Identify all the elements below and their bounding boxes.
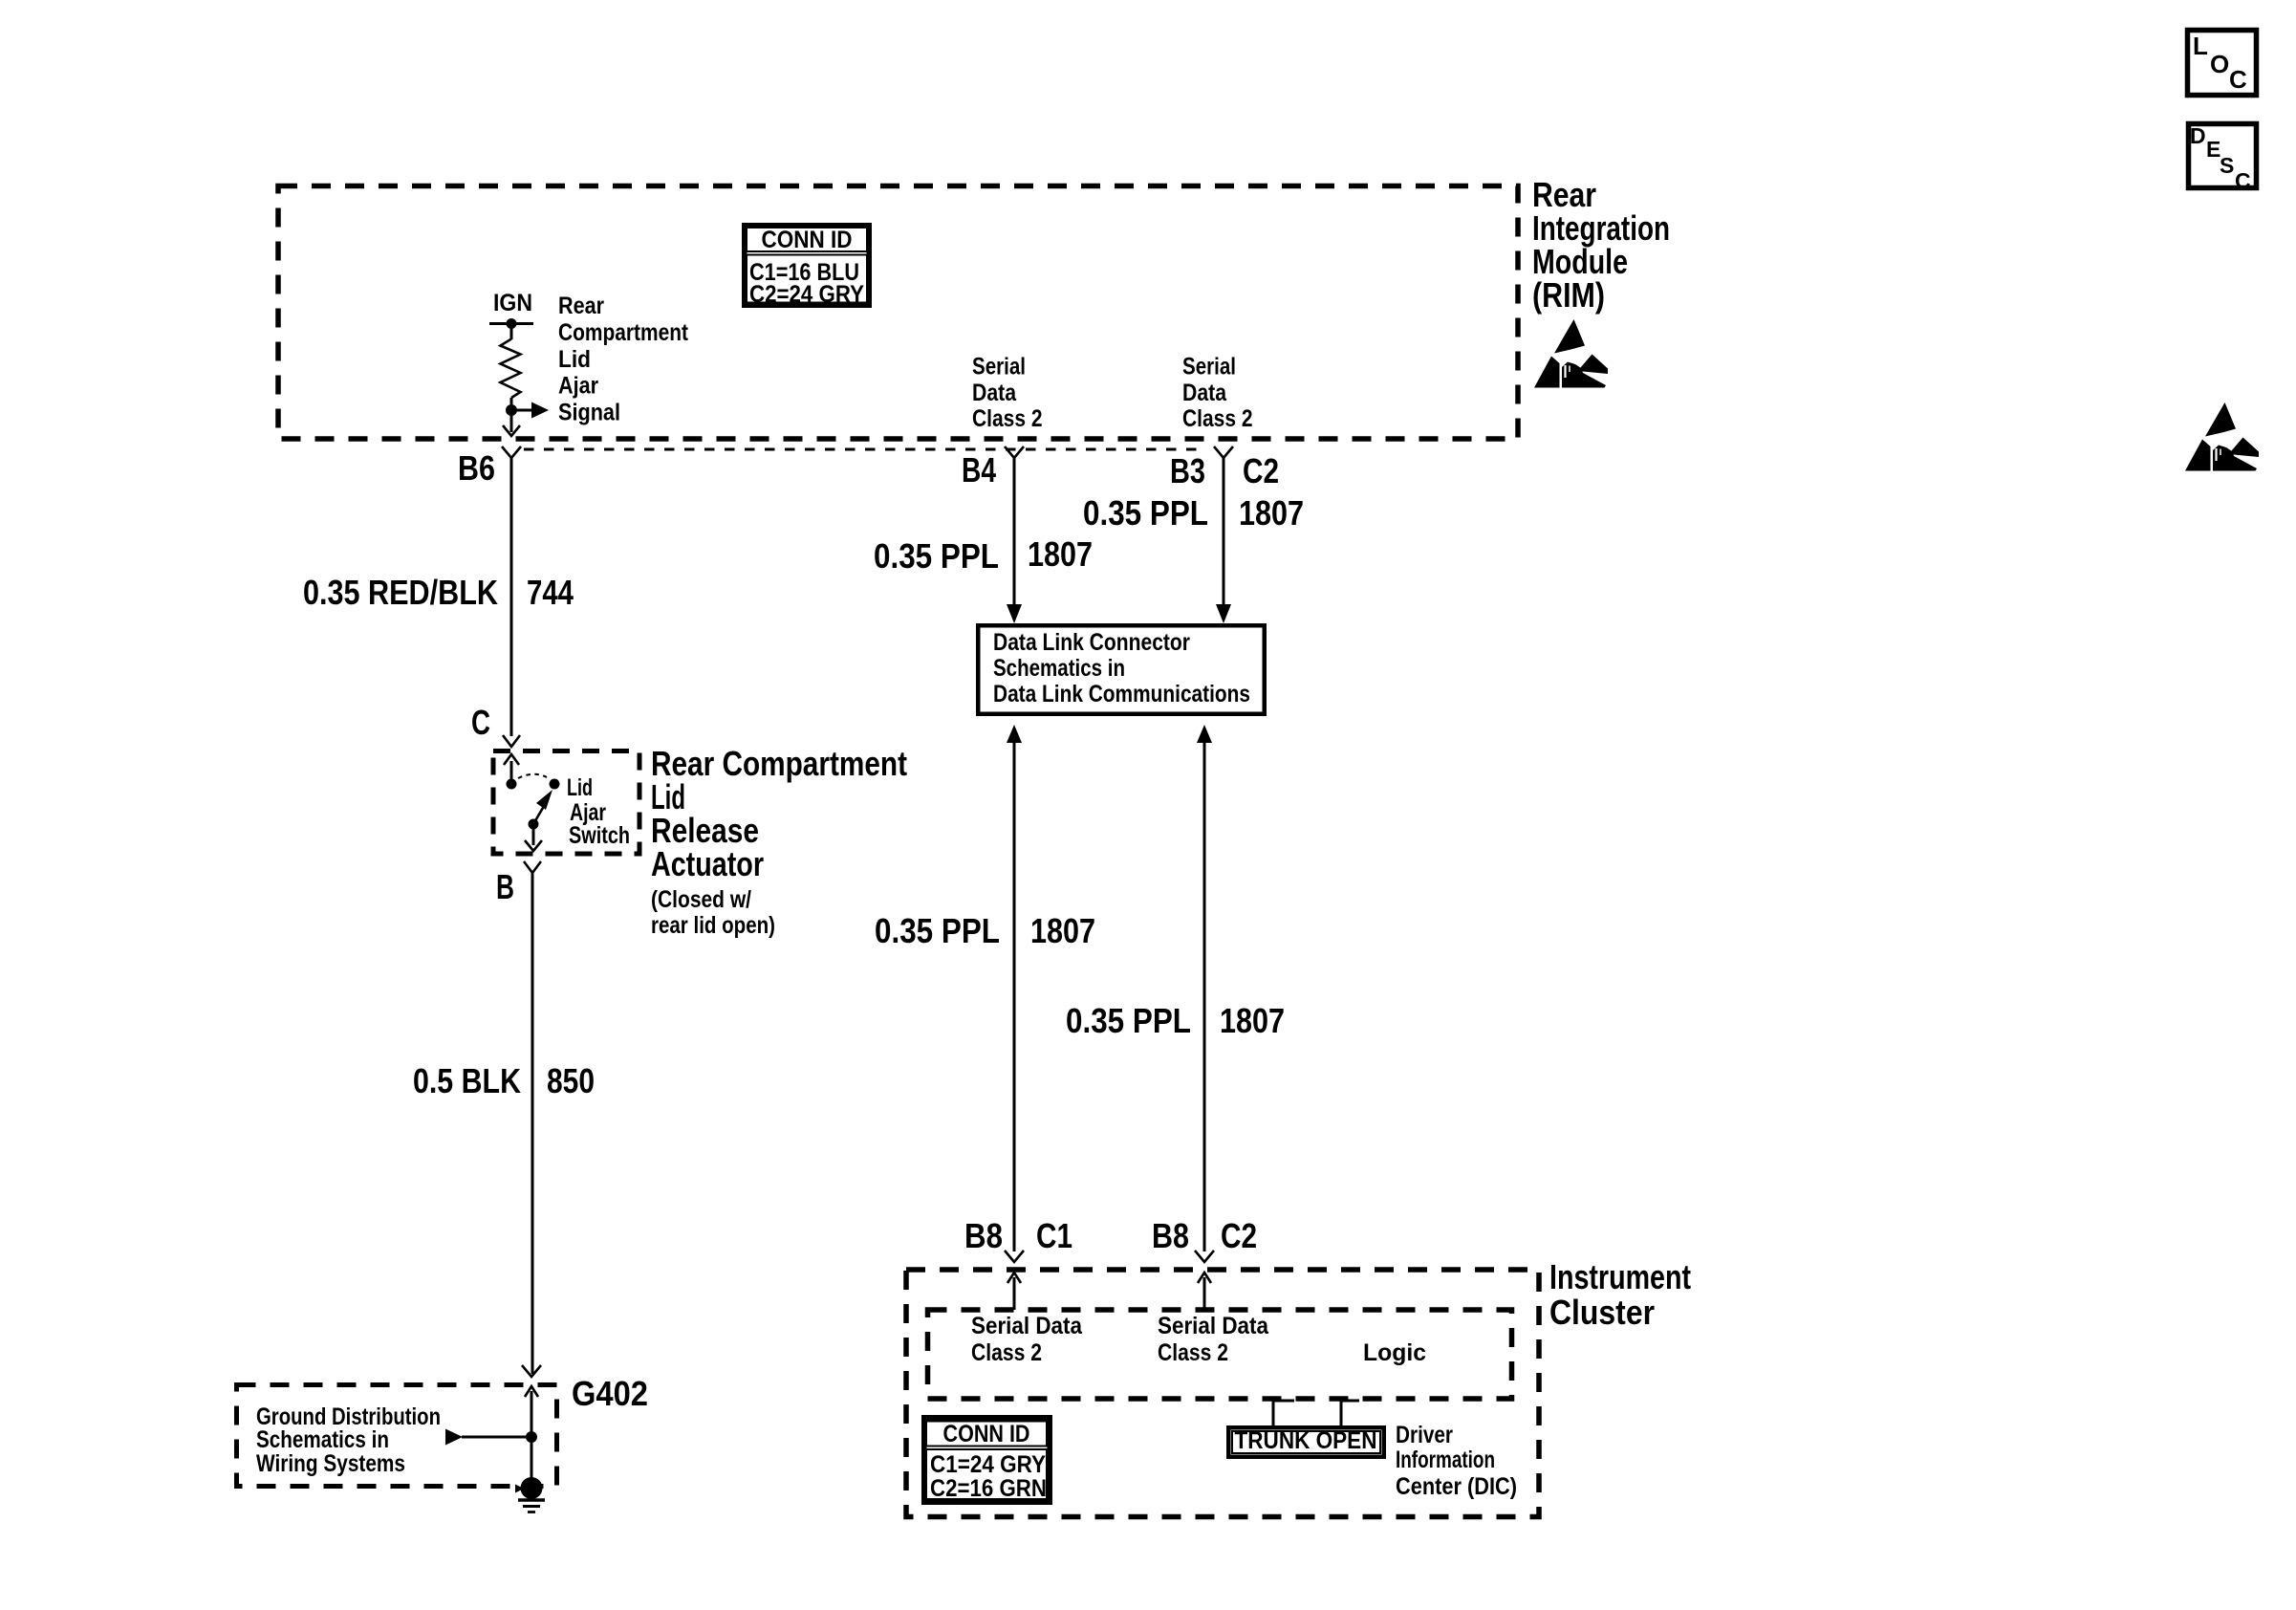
svg-text:0.35 PPL: 0.35 PPL: [1083, 493, 1208, 533]
wire B6 to C (0.35 RED/BLK 744): [510, 457, 513, 736]
svg-text:(RIM): (RIM): [1532, 275, 1605, 315]
svg-text:G402: G402: [572, 1374, 648, 1413]
svg-text:C: C: [471, 703, 490, 742]
resistor signal labels: [558, 293, 689, 426]
svg-text:C: C: [2235, 168, 2251, 193]
svg-text:Wiring Systems: Wiring Systems: [256, 1450, 405, 1477]
switch label: [567, 774, 630, 849]
svg-text:C2: C2: [1243, 451, 1279, 490]
svg-text:1807: 1807: [1028, 534, 1093, 574]
switch pivot dot: [529, 819, 539, 830]
svg-text:Information: Information: [1396, 1447, 1495, 1473]
connector fork B: [524, 861, 541, 873]
svg-text:Instrument: Instrument: [1549, 1257, 1691, 1296]
svg-text:Data: Data: [1182, 380, 1227, 406]
wire B to G402 (0.5 BLK 850): [531, 872, 534, 1374]
svg-text:Class 2: Class 2: [1182, 405, 1253, 432]
CONN ID table (IC): [924, 1418, 1051, 1503]
resistor (lid ajar pull-up): [501, 339, 521, 399]
svg-text:B4: B4: [962, 450, 996, 490]
wire (junction to ground): [531, 1437, 533, 1482]
junction dot (G402): [526, 1431, 537, 1443]
svg-text:C2=16 GRN: C2=16 GRN: [930, 1475, 1047, 1502]
Serial Data Class 2 label (B3): [1182, 354, 1253, 433]
switch contact dot (left): [507, 779, 517, 790]
svg-text:Serial Data: Serial Data: [971, 1313, 1083, 1339]
connector fork B4: [1005, 446, 1024, 458]
connector fork G402: [522, 1365, 541, 1377]
svg-text:Lid: Lid: [567, 774, 593, 801]
ground entry arrow: [531, 1391, 533, 1437]
connector fork B8/C2: [1195, 1251, 1214, 1262]
connector fork C: [503, 735, 520, 747]
svg-text:Class 2: Class 2: [971, 1339, 1042, 1366]
junction dot (signal): [506, 404, 517, 416]
svg-text:Compartment: Compartment: [558, 319, 689, 346]
DIC label: [1396, 1422, 1517, 1500]
Serial Data Class 2 label (B4): [972, 354, 1043, 433]
svg-text:Actuator: Actuator: [651, 844, 764, 883]
wire C1 to DLC (up): [1007, 725, 1022, 743]
DESC reference box: [2189, 123, 2257, 193]
svg-text:Switch: Switch: [569, 822, 630, 849]
IC inner logic dashed box: [928, 1310, 1512, 1399]
svg-text:C1=24 GRY: C1=24 GRY: [930, 1451, 1046, 1478]
svg-text:850: 850: [547, 1061, 595, 1100]
svg-text:Signal: Signal: [558, 400, 620, 426]
switch travel dashed arc: [518, 774, 547, 778]
svg-text:1807: 1807: [1030, 911, 1095, 950]
Instrument Cluster dashed box: [906, 1270, 1539, 1517]
svg-text:Ajar: Ajar: [558, 373, 598, 400]
svg-text:B6: B6: [458, 448, 495, 488]
svg-text:0.35 PPL: 0.35 PPL: [874, 536, 999, 576]
Instrument Cluster label: [1549, 1257, 1691, 1332]
signal arrow (to Signal label): [511, 409, 532, 412]
RIM connector face (thin dashed line): [524, 448, 1206, 451]
IC entry arrow (C1): [1013, 1277, 1016, 1310]
svg-text:D: D: [2190, 123, 2206, 148]
logic wire (right) to TRUNK OPEN: [1341, 1401, 1359, 1426]
wire B4 to DLC (0.35 PPL 1807): [1013, 457, 1016, 606]
LOC reference box: [2188, 31, 2257, 96]
svg-text:Serial: Serial: [972, 354, 1026, 381]
svg-text:C1: C1: [1036, 1216, 1072, 1255]
svg-text:C: C: [2229, 65, 2247, 94]
wire (triangle to junction): [462, 1436, 531, 1439]
svg-text:Serial Data: Serial Data: [1158, 1313, 1269, 1339]
Rear Integration Module dashed box: [278, 186, 1518, 440]
switch arrow up (fixed contact): [510, 761, 513, 789]
Data Link Connector box: [978, 625, 1265, 714]
RIM module label: [1532, 175, 1670, 315]
svg-text:Lid: Lid: [558, 346, 591, 373]
ground symbol G402: [515, 1477, 545, 1512]
svg-text:0.35 PPL: 0.35 PPL: [875, 911, 1000, 950]
svg-text:Data: Data: [972, 380, 1017, 406]
svg-text:Class 2: Class 2: [972, 405, 1043, 432]
svg-text:(Closed w/: (Closed w/: [651, 886, 751, 913]
IC entry arrow (C2): [1203, 1277, 1206, 1310]
svg-text:O: O: [2210, 50, 2229, 78]
IGN feed bar: [489, 322, 533, 325]
svg-text:Rear: Rear: [558, 293, 604, 319]
wire (IGN to resistor): [510, 324, 513, 340]
svg-text:TRUNK OPEN: TRUNK OPEN: [1235, 1427, 1377, 1454]
connector fork B3: [1214, 446, 1233, 458]
svg-text:C2: C2: [1221, 1216, 1257, 1255]
svg-text:CONN ID: CONN ID: [762, 227, 853, 253]
svg-text:IGN: IGN: [493, 290, 532, 316]
connector fork B8/C1: [1005, 1251, 1024, 1262]
svg-text:B8: B8: [1152, 1216, 1189, 1255]
wire B3 to DLC (0.35 PPL 1807): [1223, 457, 1225, 606]
ground distribution text: [256, 1403, 441, 1477]
wire C2 to DLC (up): [1197, 725, 1212, 743]
svg-text:Driver: Driver: [1396, 1422, 1453, 1448]
svg-text:Center (DIC): Center (DIC): [1396, 1473, 1517, 1500]
wire (resistor to junction): [510, 398, 513, 432]
svg-text:0.5 BLK: 0.5 BLK: [413, 1061, 521, 1100]
svg-text:Data Link Connector: Data Link Connector: [993, 629, 1190, 656]
connector fork B6: [502, 446, 521, 458]
svg-text:Class 2: Class 2: [1158, 1339, 1228, 1366]
svg-text:Cluster: Cluster: [1549, 1293, 1655, 1332]
svg-text:Schematics in: Schematics in: [993, 655, 1125, 682]
svg-text:Schematics in: Schematics in: [256, 1426, 389, 1453]
CONN ID table (RIM): [745, 226, 870, 308]
svg-text:B8: B8: [964, 1216, 1003, 1255]
TRUNK OPEN indicator box: [1228, 1427, 1384, 1457]
switch contact dot (right): [550, 779, 560, 790]
svg-text:Logic: Logic: [1363, 1339, 1426, 1366]
svg-text:1807: 1807: [1220, 1001, 1285, 1040]
Ground Distribution dashed box: [237, 1385, 557, 1487]
wire-destination triangle: [445, 1429, 463, 1446]
junction dot (IGN): [507, 318, 517, 329]
svg-text:0.35 RED/BLK: 0.35 RED/BLK: [303, 573, 498, 612]
svg-text:C2=24 GRY: C2=24 GRY: [749, 281, 864, 308]
ESD warning symbol (page margin): [2185, 402, 2259, 471]
logic wire (left) to TRUNK OPEN: [1273, 1401, 1294, 1426]
actuator label: [651, 744, 907, 939]
svg-text:rear lid open): rear lid open): [651, 912, 775, 939]
switch lever with arrowhead: [533, 801, 547, 824]
switch arrow down (to B): [532, 824, 535, 845]
svg-text:Serial: Serial: [1182, 354, 1236, 381]
svg-text:B3: B3: [1170, 451, 1205, 490]
svg-text:Rear Compartment: Rear Compartment: [651, 744, 907, 783]
Rear Compartment Lid Release Actuator dashed box: [493, 751, 639, 855]
serial data label (IC C1): [971, 1313, 1083, 1366]
svg-text:B: B: [496, 867, 514, 906]
svg-text:L: L: [2193, 32, 2208, 60]
svg-text:0.35 PPL: 0.35 PPL: [1066, 1001, 1191, 1040]
svg-text:744: 744: [527, 573, 574, 612]
serial data label (IC C2): [1158, 1313, 1269, 1366]
svg-text:CONN ID: CONN ID: [943, 1421, 1030, 1447]
svg-text:S: S: [2220, 153, 2234, 178]
svg-text:1807: 1807: [1239, 493, 1304, 533]
svg-text:Data Link Communications: Data Link Communications: [993, 681, 1250, 707]
pin arrowhead (B6, into connector): [503, 425, 520, 436]
ESD warning symbol (RIM): [1534, 319, 1608, 388]
